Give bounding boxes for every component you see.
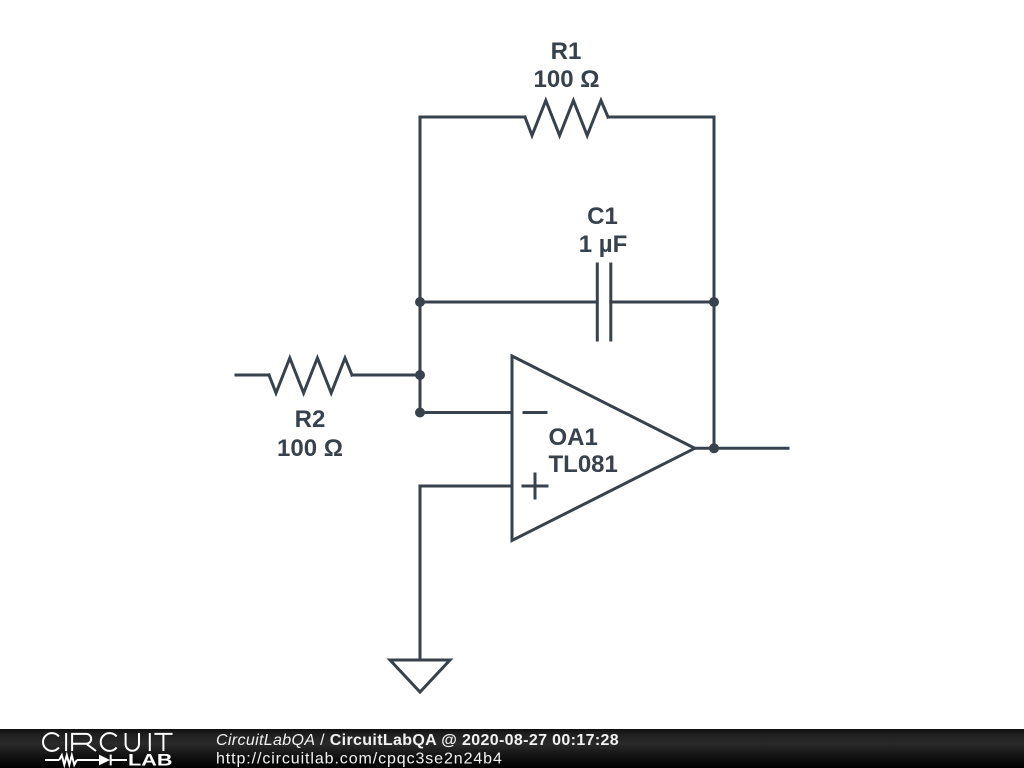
CircuitLab logo wordmark CIRCUIT [43, 733, 172, 751]
wire top horizontal left (to R1) [420, 116, 525, 119]
svg-text:C1: C1 [587, 203, 618, 230]
junction dot cap-left [415, 297, 425, 307]
wire capacitor branch left [420, 301, 597, 304]
wire top horizontal right (R1 to right branch) [608, 116, 714, 119]
svg-text:R1: R1 [551, 38, 582, 65]
svg-text:100 Ω: 100 Ω [534, 66, 600, 93]
wire inverting input [420, 411, 512, 414]
svg-text:100 Ω: 100 Ω [277, 435, 343, 462]
op-amp minus pin [524, 411, 546, 414]
value R1 100 Ohm [534, 66, 600, 93]
svg-text:LAB: LAB [128, 751, 173, 768]
resistor R2 [269, 358, 352, 393]
wire non-inverting input [420, 486, 512, 660]
value R2 100 Ohm [277, 435, 343, 462]
wire capacitor branch right [611, 301, 714, 304]
footer title line [216, 732, 619, 768]
svg-text:R2: R2 [295, 406, 326, 433]
op-amp OA1 [512, 356, 695, 541]
wire R2 to node A [352, 374, 420, 377]
wire right vertical branch [713, 117, 716, 448]
svg-text:CircuitLabQA / CircuitLabQA @: CircuitLabQA / CircuitLabQA @ 2020-08-27… [216, 732, 619, 749]
resistor R1 [525, 101, 608, 136]
junction dot R2-node [415, 370, 425, 380]
label OA1 [549, 424, 598, 451]
label C1 [587, 203, 618, 230]
value OA1 TL081 [549, 451, 618, 478]
value C1 1 uF [579, 231, 628, 258]
svg-text:1 µF: 1 µF [579, 231, 628, 258]
ground [390, 660, 450, 692]
svg-text:TL081: TL081 [549, 451, 618, 478]
label R1 [551, 38, 582, 65]
junction dot inverting-node [415, 408, 425, 418]
svg-text:OA1: OA1 [549, 424, 598, 451]
op-amp plus pin [523, 474, 547, 498]
CircuitLab logo resistor-diode symbol [45, 755, 127, 766]
CircuitLab logo wordmark LAB [128, 751, 173, 768]
junction dot cap-right [709, 297, 719, 307]
wire output [695, 447, 788, 450]
capacitor C1 [597, 264, 611, 340]
svg-text:http://circuitlab.com/cpqc3se2: http://circuitlab.com/cpqc3se2n24b4 [216, 751, 503, 768]
wire R2 input lead [236, 374, 269, 377]
junction dot output-node [709, 443, 719, 453]
label R2 [295, 406, 326, 433]
wire top-left vertical (node A to R1 left) [419, 117, 422, 413]
